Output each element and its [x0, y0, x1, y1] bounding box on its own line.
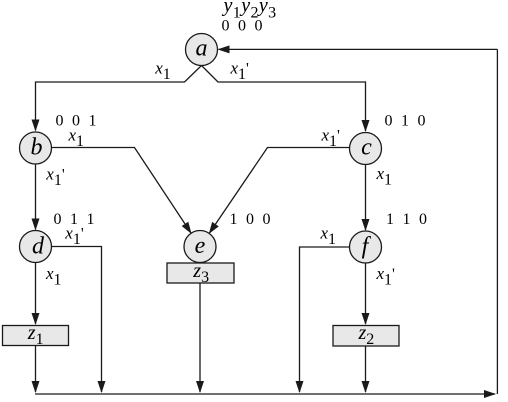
wire c down x1 to f [365, 165, 367, 231]
label 011 state d [54, 211, 95, 228]
label 110 state f [386, 211, 427, 228]
wire z3 down to bottom [199, 283, 201, 392]
node a [186, 34, 218, 66]
svg-text:x1: x1 [376, 164, 393, 189]
label x1' on a right leg [230, 59, 250, 84]
box z3 [167, 260, 234, 286]
label x1 on a left leg [154, 59, 171, 84]
label x1' below f [376, 264, 396, 289]
label 000 state a [222, 18, 263, 35]
wire f down x1' to z2 [365, 263, 367, 324]
label 001 state b [56, 113, 97, 130]
wire f left branch x1 down to bottom [300, 247, 350, 392]
svg-text:c: c [361, 135, 372, 161]
svg-text:d: d [32, 234, 45, 260]
svg-text:a: a [196, 36, 208, 62]
svg-text:0 0 0: 0 0 0 [222, 18, 263, 35]
label x1' on d right branch [64, 224, 84, 249]
svg-text:x1': x1' [45, 165, 65, 190]
wire c left branch x1' to e [209, 148, 349, 234]
wire d down x1 to z1 [35, 263, 37, 325]
wire feedback right vertical [496, 49, 498, 394]
svg-text:b: b [31, 135, 43, 161]
wire b right branch x1 to e [52, 148, 192, 234]
svg-text:e: e [195, 233, 206, 259]
box z1 [3, 322, 69, 348]
wire z1 down to bottom [35, 346, 37, 393]
wire bottom bus [35, 393, 495, 395]
label 010 state c [385, 113, 426, 130]
wire a right leg x1' to c [202, 66, 366, 132]
label x1' on c left branch [321, 126, 341, 151]
svg-text:x1': x1' [321, 126, 341, 151]
wire b down x1' to d [35, 164, 37, 230]
node b [20, 132, 52, 164]
node f [350, 231, 382, 263]
node c [350, 133, 382, 165]
svg-text:0 1 1: 0 1 1 [54, 211, 95, 228]
label x1' below b [45, 165, 65, 190]
svg-text:x1: x1 [154, 59, 171, 84]
box z2 [333, 322, 399, 348]
svg-text:1 0 0: 1 0 0 [230, 211, 271, 228]
label x1 below c [376, 164, 393, 189]
label y1y2y3 [222, 0, 277, 22]
svg-text:x1: x1 [45, 264, 62, 289]
label x1 below d [45, 264, 62, 289]
node e [184, 231, 216, 263]
svg-text:x1': x1' [230, 59, 250, 84]
label x1 on b right branch [68, 126, 85, 151]
label 100 state e [230, 211, 271, 228]
svg-text:x1': x1' [376, 264, 396, 289]
wire a left leg x1 to b [36, 66, 202, 131]
wire z2 down to bottom [365, 346, 367, 392]
svg-text:x1: x1 [320, 224, 337, 249]
wire d right branch x1' down to bottom [52, 247, 102, 393]
svg-text:1 1 0: 1 1 0 [386, 211, 427, 228]
label x1 on f left branch [320, 224, 337, 249]
wire feedback top into a [219, 48, 498, 50]
node d [20, 231, 52, 263]
svg-text:0 1 0: 0 1 0 [385, 113, 426, 130]
